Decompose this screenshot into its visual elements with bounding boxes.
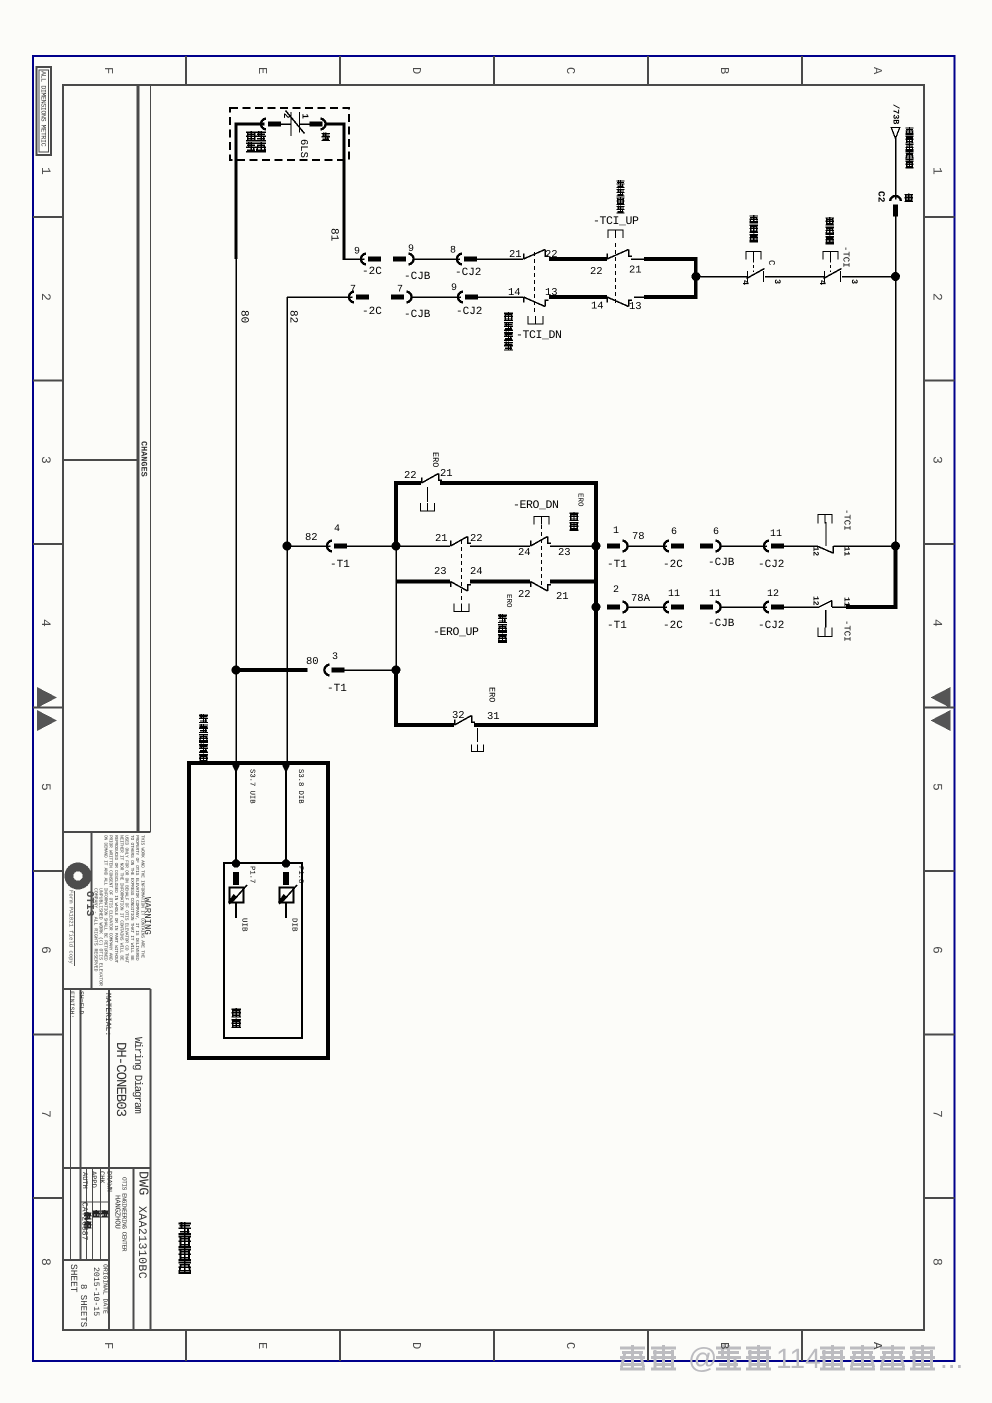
svg-text:@: @ (688, 1343, 717, 1375)
contact -ERO_UP 21-22 row546 (450, 541, 452, 547)
svg-text:...: ... (940, 1343, 963, 1374)
DIB wire below opto (285, 903, 287, 919)
switch C dashed actuator (753, 260, 755, 273)
connector C2 chinese char (fake cjk) (905, 194, 914, 203)
connector -2C pin 9 arc (361, 254, 366, 265)
svg-text:4: 4 (740, 280, 750, 285)
title block row line DWG (63, 1167, 151, 1169)
svg-text:DIB: DIB (290, 918, 298, 932)
node ERO ladder right top (592, 542, 601, 551)
svg-text:HANGZHOU: HANGZHOU (113, 1195, 122, 1229)
svg-text:12: 12 (811, 547, 820, 557)
svg-text:USED ONLY FOR OR ON BEHALF OF: USED ONLY FOR OR ON BEHALF OF OTIS ELEVA… (124, 835, 130, 963)
wire thick row1 right (644, 257, 698, 261)
svg-text:9: 9 (451, 283, 457, 294)
svg-text:-CJB: -CJB (708, 618, 735, 630)
svg-text:SHEET: SHEET (68, 1264, 79, 1293)
contact -TCI 12-11 row546 (818, 547, 833, 554)
svg-text:7: 7 (350, 285, 356, 296)
switch -TCI pivot ticks (824, 271, 826, 282)
svg-text:3: 3 (930, 456, 945, 464)
wire between ERO contacts row546 (470, 545, 530, 547)
DRAWN signature (fake cjk) (101, 1210, 109, 1218)
svg-text:C2: C2 (876, 191, 887, 203)
-TCI link row607 (825, 610, 827, 628)
-ERO_UP half-box (454, 604, 469, 612)
contact -ERO_DN 24-23 row546 (530, 541, 532, 547)
svg-text:6: 6 (713, 527, 719, 538)
svg-text:-2C: -2C (362, 306, 382, 318)
svg-text:-CJ2: -CJ2 (456, 306, 482, 318)
title block warning/material divider (63, 988, 151, 990)
svg-text:-TCI_UP: -TCI_UP (593, 215, 639, 228)
svg-text:8: 8 (930, 1258, 945, 1266)
wire 6LS box left segment (236, 123, 265, 126)
-ERO_DN half-box (534, 517, 549, 525)
connector -T1 pin 3 arc (324, 665, 329, 676)
svg-text:31: 31 (487, 711, 500, 723)
svg-text:11: 11 (770, 529, 782, 540)
svg-text:CHANGES: CHANGES (139, 441, 149, 477)
wire 81 thick vertical (342, 123, 345, 260)
svg-text:THIS WORK AND THE INFORMATION: THIS WORK AND THE INFORMATION IT CONTAIN… (140, 835, 146, 958)
svg-text:1: 1 (300, 114, 310, 120)
svg-text:SH=FLD: SH=FLD (78, 991, 85, 1015)
svg-text:4: 4 (38, 619, 53, 627)
connector -2C pin 9 bar (368, 257, 381, 262)
svg-text:MATERIAL:: MATERIAL: (103, 993, 112, 1036)
svg-text:D: D (409, 67, 423, 74)
-TCI_DN actuator dashed link (534, 252, 536, 313)
svg-text:P1.7: P1.7 (248, 866, 256, 883)
wire 82 top corner segment (287, 296, 353, 298)
svg-text:80: 80 (306, 656, 319, 668)
-TCI half-box row607 (818, 628, 832, 637)
svg-text:-T1: -T1 (607, 559, 627, 571)
svg-text:TO OTHERS ON THE EXPRESS CONDI: TO OTHERS ON THE EXPRESS CONDITION THAT … (129, 835, 135, 961)
svg-text:21: 21 (440, 468, 453, 480)
wire -CJ2 to -TCI contact row607 (784, 606, 819, 608)
junction vertical rows1-2 (694, 257, 698, 299)
bus thick segment 546-607 (894, 544, 898, 607)
svg-text:/73B: /73B (891, 104, 901, 124)
wire -CJ2 to TCI_DN contact row2 (478, 296, 523, 298)
limit switch 6LS actuator slash (286, 111, 305, 134)
svg-text:11: 11 (842, 547, 851, 557)
svg-text:-TCI_DN: -TCI_DN (516, 329, 562, 342)
6LS chinese annotation column 2 (fake cjk rotated) (256, 131, 266, 141)
connector -? female arc 6LS left (261, 119, 266, 130)
svg-text:4: 4 (930, 619, 945, 627)
svg-text:14: 14 (508, 287, 521, 299)
CHANGES revision strip lines (136, 85, 139, 832)
connector -2C pin 6 arc row546 (664, 541, 669, 552)
svg-text:13: 13 (629, 301, 642, 313)
connector -T1 pin 1 bar (607, 544, 620, 549)
wire -TCI contact to bus row546 (834, 545, 896, 547)
wire 82 entry arrow (282, 764, 291, 774)
wire node to -ERO_UP contact row 546 (396, 545, 450, 547)
connector -2C pin 6 bar row546 (671, 544, 684, 549)
connector -T1 pin 3 bar (332, 668, 345, 673)
connector -CJ2 pin 11 bar row546 (771, 544, 784, 549)
svg-text:-TCI: -TCI (842, 620, 852, 642)
switch C lever (747, 269, 765, 279)
wire node82 to -T1 pin4 (287, 545, 331, 547)
ERO ladder left vertical thick bottom (394, 670, 398, 727)
wire -TCI switch to bus (842, 276, 896, 278)
wire 82 lower vertical to box (286, 546, 288, 763)
svg-text:-CJB: -CJB (404, 309, 431, 321)
wire -CJB to -CJ2 row607 (720, 606, 767, 608)
ERO bottom wire left thick (394, 723, 454, 727)
svg-text:81: 81 (328, 228, 340, 242)
svg-text:22: 22 (518, 589, 531, 601)
svg-text:11: 11 (709, 589, 721, 600)
svg-text:4: 4 (817, 280, 827, 285)
svg-text:24: 24 (470, 566, 483, 578)
switch C half-box (746, 252, 761, 260)
svg-text:5: 5 (930, 783, 945, 791)
connector -CJB pin 11 arc row607 (715, 602, 720, 613)
svg-text:9: 9 (408, 244, 414, 255)
connector -CJ2 pin 12 arc row607 (764, 602, 769, 613)
6LS chinese annotation column 1 (fake cjk rotated) (246, 131, 256, 141)
svg-text:114: 114 (776, 1343, 821, 1374)
contact -TCI 12-11 row607 (819, 601, 832, 608)
bus chinese annotation top (rotated fake cjk) (906, 127, 914, 135)
node ERO ladder left bottom (392, 666, 401, 675)
svg-text:-CJB: -CJB (404, 271, 431, 283)
svg-text:XAA21310BC: XAA21310BC (135, 1206, 148, 1279)
svg-text:3: 3 (772, 279, 782, 284)
APPD signature (fake cjk) (84, 1212, 92, 1220)
svg-text:12: 12 (811, 596, 820, 606)
wire 80 junction thick horizontal (236, 668, 308, 672)
contact -ERO_UP 23-24 row2 (450, 582, 452, 588)
ERO ladder left vertical thin lower (395, 546, 397, 668)
fold mark right margin (931, 687, 951, 708)
wire 80 entry arrow (232, 764, 241, 774)
wire -CJB to -CJ2 row2 (411, 296, 461, 298)
main board chinese label (rotated fake cjk) (232, 1008, 242, 1018)
-TCI_DN chinese annotation (rotated fake cjk) (504, 312, 513, 321)
connector -2C pin 11 arc row607 (664, 602, 669, 613)
-TCI half-box row546 (818, 515, 832, 524)
svg-text:Form PA1021 field copy: Form PA1021 field copy (68, 890, 75, 964)
svg-text:PRIOR WRITTEN CONSENT OF OTIS: PRIOR WRITTEN CONSENT OF OTIS ELEVATOR C… (108, 835, 114, 961)
ERO top half-box (421, 503, 435, 511)
contact -ERO_DN 22-21 row2 (530, 582, 532, 588)
bus wire upper (895, 139, 897, 200)
svg-text:21: 21 (556, 591, 569, 603)
connector C2 arc (vertical) (890, 196, 901, 201)
wire -T1 to ERO ladder (347, 545, 396, 547)
svg-text:3: 3 (849, 279, 859, 284)
connector -T1 pin 4 arc (327, 541, 332, 552)
limit switch 6LS contact ticks (290, 112, 292, 136)
svg-text:5: 5 (38, 783, 53, 791)
node UIB input (232, 859, 240, 867)
title block top line (63, 831, 151, 833)
wire 80 thin vertical (235, 259, 237, 668)
-TCI link row546 (825, 522, 827, 546)
svg-text:8: 8 (38, 1258, 53, 1266)
svg-text:E: E (255, 1342, 269, 1349)
svg-text:-T1: -T1 (607, 620, 627, 632)
svg-text:24: 24 (518, 547, 531, 559)
connector -T1 pin 2 bar (607, 605, 620, 610)
-TCI_UP actuator dashed link (615, 243, 617, 304)
ERO top branch wire right (440, 481, 598, 485)
svg-text:-2C: -2C (362, 266, 382, 278)
DIB input terminal bar (283, 872, 289, 885)
switch -TCI dashed actuator (830, 260, 832, 273)
connector -2C pin 7 bar (356, 295, 369, 300)
inner drawing frame (63, 85, 924, 1330)
connector -CJ2 pin 11 arc row546 (764, 541, 769, 552)
ERO ladder row2 wire left thick (396, 580, 450, 584)
svg-text:C: C (766, 260, 776, 266)
wire -T1 to node row670 (345, 669, 397, 671)
wire -T1 to -2C row546 (627, 545, 667, 547)
svg-text:82: 82 (305, 532, 318, 544)
ERO ladder right vertical thick (594, 483, 598, 727)
svg-text:1: 1 (930, 167, 945, 175)
contact -TCI_DN 21-22 (523, 254, 525, 260)
svg-text:1: 1 (38, 167, 53, 175)
svg-text:6: 6 (38, 946, 53, 954)
-ERO_UP actuator dashed link (461, 540, 463, 602)
svg-text:6LS: 6LS (297, 139, 309, 158)
ERO top contact link to half-box (427, 487, 429, 502)
connector -2C pin 11 bar row607 (671, 605, 684, 610)
connector -? male arc 6LS right (320, 119, 325, 130)
switch C pivot ticks (747, 271, 749, 282)
svg-text:D: D (409, 1342, 423, 1349)
6LS chinese single char right (fake cjk) (322, 133, 331, 142)
wire thick row2 right (644, 295, 698, 299)
wire node to switch C (698, 276, 747, 278)
svg-text:E: E (255, 67, 269, 74)
svg-text:S3.7 UIB: S3.7 UIB (248, 769, 256, 804)
connector bar 6LS right (310, 122, 323, 127)
wire 80 inside box (235, 765, 237, 863)
svg-text:4: 4 (334, 524, 340, 535)
svg-text:-ERO_DN: -ERO_DN (513, 499, 559, 512)
zhihu watermark (620, 1345, 645, 1370)
wire thick row1 mid (549, 257, 607, 261)
main board inner box (224, 863, 302, 1038)
node ERO ladder left top (392, 542, 401, 551)
wire row 81 to -2C (343, 258, 365, 260)
svg-text:C: C (563, 67, 577, 74)
connector -T1 pin 4 bar (334, 544, 347, 549)
wire 82 inside box (285, 765, 287, 863)
svg-text:-2C: -2C (663, 559, 683, 571)
connector -CJ2 pin 9 arc (458, 292, 463, 303)
svg-text:22: 22 (404, 470, 417, 482)
connector -CJB pin 11 bar row607 (700, 605, 713, 610)
svg-text:AUTH: AUTH (80, 1172, 88, 1189)
contact -TCI_UP 14-13 row2 (606, 297, 608, 303)
wire -CJ2 to TCI_DN contact (477, 258, 523, 260)
title block warning column divider (91, 832, 93, 989)
svg-text:7: 7 (930, 1110, 945, 1118)
UIB optocoupler symbol (230, 888, 244, 903)
svg-text:ORIGINAL DATE: ORIGINAL DATE (102, 1264, 109, 1314)
title block row line SHEET (63, 1259, 109, 1261)
svg-text:22: 22 (470, 533, 483, 545)
connector -2C pin 7 arc (349, 292, 354, 303)
ERO bottom half-box (472, 745, 484, 752)
svg-text:2: 2 (930, 293, 945, 301)
ERO ladder row2 wire mid thick (470, 580, 530, 584)
wire 80 junction node (232, 666, 241, 675)
svg-text:3: 3 (332, 652, 338, 663)
6LS limit switch dashed enclosure (230, 108, 349, 160)
switch -TCI half-box (823, 252, 838, 260)
top margin zone dividers (185, 56, 187, 85)
svg-text:2015-10-15: 2015-10-15 (91, 1267, 100, 1316)
OTIS logo (65, 863, 92, 890)
svg-text:8: 8 (450, 246, 456, 257)
svg-text:82: 82 (287, 310, 299, 323)
connector -CJB pin 9 arc (408, 254, 413, 265)
wire 80 lower vertical to box (235, 670, 237, 763)
svg-text:7: 7 (38, 1110, 53, 1118)
svg-text:B: B (717, 67, 731, 74)
wire 6LS box right segment (325, 123, 345, 126)
form note underline (74, 891, 76, 966)
svg-text:3: 3 (38, 456, 53, 464)
svg-text:21: 21 (629, 265, 642, 277)
svg-text:F: F (101, 1342, 115, 1349)
wire -CJB to -CJ2 row1 (413, 258, 460, 260)
svg-text:-T1: -T1 (330, 559, 350, 571)
-TCI_UP chinese annotation (rotated fake cjk) (617, 180, 625, 188)
ERO top branch wire left (394, 481, 421, 485)
svg-text:-ERO_UP: -ERO_UP (433, 626, 479, 639)
connector -CJB pin 6 bar row546 (700, 544, 713, 549)
connector -T1 pin 2 arc (622, 602, 627, 613)
DIB optocoupler symbol (280, 888, 294, 903)
connector -CJ2 pin 8 bar (464, 257, 477, 262)
svg-text:-CJB: -CJB (708, 557, 735, 569)
svg-text:6: 6 (671, 527, 677, 538)
svg-text:9: 9 (354, 247, 360, 258)
contact -TCI_UP 22-21 row1 (606, 254, 608, 260)
svg-text:8 SHEETS: 8 SHEETS (78, 1284, 88, 1327)
node ERO ladder right row 607 (592, 603, 601, 612)
left margin zone dividers (33, 216, 63, 218)
switch -TCI chinese annotation (rotated fake cjk) (826, 217, 835, 226)
right margin zone dividers (924, 216, 955, 218)
switch C chinese annotation (rotated fake cjk) (750, 215, 759, 224)
svg-text:CHK: CHK (97, 1171, 105, 1184)
svg-text:ERO: ERO (504, 594, 513, 608)
svg-text:C: C (563, 1342, 577, 1349)
svg-text:NEITHER IT NOR THE INFORMATION: NEITHER IT NOR THE INFORMATION IT CONTAI… (118, 835, 124, 961)
svg-text:78A: 78A (631, 593, 651, 605)
connector -CJB pin 7 bar (391, 295, 404, 300)
node bus / inspection row (891, 272, 900, 281)
svg-text:14: 14 (591, 301, 604, 313)
contact -TCI_DN 14-13 row2 (523, 297, 525, 303)
svg-text:DH-CONEB03: DH-CONEB03 (112, 1042, 128, 1117)
contact ERO bottom 32-31 (454, 720, 456, 726)
svg-text:78: 78 (632, 531, 645, 543)
svg-text:ERO: ERO (487, 687, 497, 702)
svg-text:PROPERTY OF OTIS ELEVATOR COMP: PROPERTY OF OTIS ELEVATOR COMPANY, IT IS… (134, 835, 140, 961)
connector -CJB pin 7 arc (406, 292, 411, 303)
svg-text:COMPANY - ALL RIGHTS RESERVED: COMPANY - ALL RIGHTS RESERVED (93, 888, 99, 972)
ERO bottom wire right thick (474, 723, 598, 727)
controller outer box (189, 763, 328, 1058)
svg-text:6: 6 (930, 946, 945, 954)
title block vertical dividers (70, 989, 72, 1260)
connector -T1 pin 1 arc (622, 541, 627, 552)
svg-text:12: 12 (767, 589, 779, 600)
wire thick -TCI to bus row607 (846, 605, 897, 609)
svg-text:ERO: ERO (576, 493, 585, 507)
svg-text:OTIS ENGINEERING CENTER: OTIS ENGINEERING CENTER (121, 1177, 128, 1252)
svg-text:-CJ2: -CJ2 (758, 620, 784, 632)
svg-text:F: F (101, 67, 115, 74)
svg-text:A: A (870, 67, 884, 75)
wire row1 after TCI_UP contact (631, 258, 645, 260)
controller cabinet chinese label (rotated fake cjk) (199, 714, 208, 723)
connector -CJB pin 6 arc row546 (715, 541, 720, 552)
wire after limit switch (300, 123, 312, 125)
svg-text:-CJ2: -CJ2 (455, 267, 481, 279)
svg-text:23: 23 (558, 547, 571, 559)
ERO ladder row2 wire right thick (550, 580, 598, 584)
UIB input terminal bar (233, 872, 239, 885)
svg-text:-T1: -T1 (327, 683, 347, 695)
node DIB input (282, 859, 290, 867)
svg-text:P1.8: P1.8 (296, 866, 304, 883)
wire -CJ2 to -TCI contact row546 (784, 545, 818, 547)
connector -CJ2 pin 8 arc (457, 254, 462, 265)
-ERO_DN actuator dashed link (541, 525, 543, 586)
svg-text:21: 21 (509, 249, 522, 261)
svg-text:DWG: DWG (135, 1171, 150, 1195)
svg-text:-TCI: -TCI (841, 246, 851, 268)
connector -CJ2 pin 9 bar (465, 295, 478, 300)
wire 80 upper thick vertical (234, 123, 237, 259)
svg-text:A: A (870, 1342, 884, 1350)
wire row2 after TCI_UP contact (634, 296, 645, 298)
connector bar 6LS left (268, 122, 281, 127)
svg-text:23: 23 (434, 566, 447, 578)
inspection operation annotation (rotated fake cjk) (179, 1222, 192, 1235)
contact ERO top 22-21 (421, 478, 423, 484)
UIB wire below opto (235, 903, 237, 919)
fold mark left margin (37, 687, 57, 708)
wire -TCI contact link row607 (832, 606, 846, 608)
svg-text:ALL DIMENSIONS METRIC: ALL DIMENSIONS METRIC (39, 71, 47, 147)
wire 82 junction node (283, 542, 292, 551)
bus wire lower (895, 217, 897, 547)
svg-text:7: 7 (397, 285, 403, 296)
svg-text:-CJ2: -CJ2 (758, 559, 784, 571)
node junction rows to inspection string (692, 272, 701, 281)
svg-text:S3.8 DIB: S3.8 DIB (296, 769, 304, 804)
svg-text:Wiring Diagram: Wiring Diagram (131, 1037, 143, 1114)
ERO ladder left vertical thick upper (394, 483, 398, 546)
off-page arrow (open triangle) (891, 128, 900, 139)
